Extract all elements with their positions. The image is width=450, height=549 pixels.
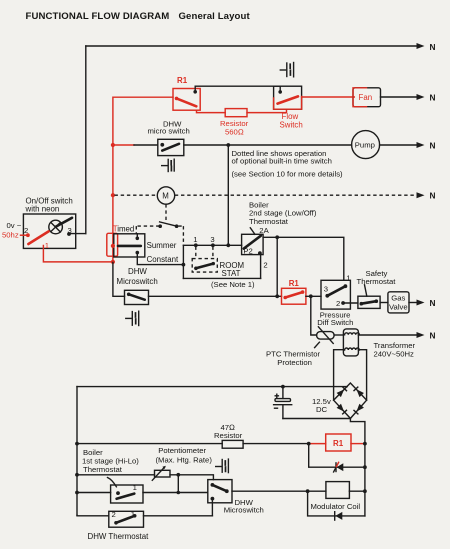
svg-text:50hz: 50hz: [2, 231, 19, 240]
wire: 50hz red tick to terminal 2: [21, 234, 27, 236]
pressure diff switch box: [321, 280, 350, 309]
wire: dashed timer contact to heating line: [178, 226, 183, 244]
thermostat boiler 1st stage box: [111, 485, 143, 503]
svg-text:DHW Thermostat: DHW Thermostat: [88, 532, 150, 541]
svg-text:DHW: DHW: [128, 267, 147, 276]
wire: microswitch lower contact to DHW thermostat line: [211, 499, 213, 516]
svg-text:N: N: [430, 92, 436, 102]
svg-text:P2: P2: [243, 247, 252, 256]
microswitch DHW (fan circuit): [158, 139, 184, 155]
wire: junction drop to boiler 1st stage line: [177, 475, 179, 493]
diode D1 (across R1 coil): [337, 463, 344, 471]
wire: resistor to R1 coil: [243, 443, 309, 445]
svg-text:2: 2: [112, 510, 116, 519]
wire: red live riser: [113, 97, 173, 262]
blade of Summer/Constant selector: [118, 245, 141, 248]
svg-text:R1: R1: [333, 439, 344, 448]
node: rail junction R1 coil: [363, 442, 367, 446]
svg-text:Thermostat: Thermostat: [83, 465, 123, 474]
wire: rail to potentiometer: [77, 474, 155, 476]
svg-text:Summer: Summer: [147, 241, 177, 250]
wire: branch to protection diode: [309, 444, 365, 468]
bridge rectifier BR1: [334, 383, 367, 418]
suppressor capacitor to earth (below DHW micro switch): [162, 159, 175, 171]
wire: live drop to DHW microswitch: [113, 263, 125, 297]
wire: dashed from motor to timer contact: [165, 204, 167, 222]
svg-text:Switch: Switch: [280, 121, 303, 130]
thermostat P2 box: [242, 234, 264, 254]
svg-text:R1: R1: [177, 76, 188, 85]
wire: vertical from On/Off switch terminal 3 up to top N line: [85, 46, 87, 234]
node: terminal 2 of On/Off switch: [26, 233, 30, 237]
wire: red link into R1 coil: [309, 443, 326, 445]
wire: heating feed line to P2: [183, 244, 241, 246]
svg-text:1: 1: [133, 483, 137, 492]
node: terminal 2 of pressure diff switch: [341, 301, 345, 305]
modulator coil L1: [326, 482, 350, 499]
resistor 47 ohm: [222, 440, 243, 448]
switch S1 On/Off box: [23, 214, 75, 248]
room stat box (dashed): [192, 259, 217, 273]
node: junction to protection diode: [307, 442, 311, 446]
svg-text:1: 1: [193, 235, 197, 244]
blade of P2 thermostat: [244, 236, 261, 249]
wire: flyback branch: [308, 491, 365, 516]
leader line from 1st stage label: [108, 478, 117, 487]
wire: red drop from terminal 1: [43, 246, 113, 262]
blade (black) of On/Off switch: [56, 218, 72, 227]
timer contact: [158, 224, 162, 228]
wire: 47 ohm resistor line: [77, 443, 222, 445]
wire: DHW microswitch to R1 contact: [149, 295, 282, 297]
microswitch DHW (modulator circuit): [208, 480, 232, 503]
suppressor capacitor to earth (potentiometer): [216, 459, 229, 473]
wire: Summer contact stem to box top: [136, 234, 138, 239]
blade (red) of On/Off switch: [28, 231, 48, 244]
svg-text:Modulator Coil: Modulator Coil: [311, 502, 361, 511]
diode upper-left: [337, 389, 345, 397]
svg-text:(see Section 10 for more detai: (see Section 10 for more details): [232, 169, 344, 178]
wire: PTC thermistor to transformer: [334, 334, 343, 336]
wire: Flow Switch to Fan (red): [302, 96, 355, 98]
svg-text:Microswitch: Microswitch: [117, 277, 158, 286]
svg-text:2: 2: [336, 299, 340, 308]
node: junction to transformer primary feed: [309, 294, 313, 298]
svg-text:Microswitch: Microswitch: [224, 506, 264, 515]
svg-text:Resistor: Resistor: [214, 431, 243, 440]
node: rail junction modulator: [363, 489, 367, 493]
svg-text:1: 1: [45, 241, 49, 250]
node: junction to R1 coil circuit riser: [275, 235, 279, 239]
svg-text:with neon: with neon: [25, 205, 60, 214]
potentiometer RV1: [155, 470, 171, 477]
wire: Fan to N: [381, 96, 418, 98]
suppressor capacitor to earth (top): [280, 63, 293, 77]
wire: 1st stage thermostat to DHW microswitch: [143, 492, 208, 494]
svg-text:Timed: Timed: [113, 225, 135, 234]
svg-text:240V~50Hz: 240V~50Hz: [374, 349, 415, 358]
wire: feed down to PTC thermistor: [311, 296, 317, 335]
svg-text:micro switch: micro switch: [148, 127, 190, 136]
svg-text:N: N: [430, 42, 436, 52]
svg-text:Diff Switch: Diff Switch: [317, 318, 353, 327]
smoothing capacitor C1: [282, 387, 284, 399]
wire: Constant contact stem down and to heating enclosure: [137, 253, 183, 265]
node: rail junction potentiometer line: [75, 473, 79, 477]
arrow to N (pump): [417, 142, 425, 148]
node: room stat terminal 3: [211, 243, 215, 247]
wire: left DC rail: [76, 387, 78, 516]
arrow to N (dashed line): [417, 192, 425, 198]
PTC thermistor: [317, 332, 335, 340]
transformer T1: [343, 329, 358, 356]
wire: enclosure bottom edge: [183, 277, 260, 279]
node: P2 terminal 2: [258, 251, 262, 255]
svg-text:Protection: Protection: [277, 358, 312, 367]
svg-text:DC: DC: [316, 405, 328, 414]
diode upper-right: [356, 389, 364, 397]
motor M of time switch: [157, 187, 174, 204]
node: rail junction diode: [363, 465, 367, 469]
node: terminal 3 of On/Off switch: [67, 232, 71, 236]
svg-text:M: M: [162, 191, 169, 200]
suppressor capacitor to earth (below DHW microswitch): [126, 311, 139, 325]
gas valve: [388, 292, 409, 313]
svg-text:Thermostat: Thermostat: [249, 217, 289, 226]
wire: potentiometer output: [170, 475, 213, 480]
wire: pump to N: [380, 144, 418, 146]
wire: red bypass lower path from R1: [197, 110, 226, 112]
node: rail junction boiler 1st stage: [75, 491, 79, 495]
wire: terminal 2 to safety thermostat: [343, 302, 358, 304]
svg-text:Pump: Pump: [355, 141, 375, 150]
wire: R1 contact to pressure diff switch: [306, 295, 321, 297]
wire: enclosure right edge up to P2 terminal 2: [260, 253, 262, 278]
wire: secondary left lead to bridge: [334, 350, 344, 401]
wire: dashed optional time switch line to N: [115, 194, 418, 196]
wire: modulator coil to right rail: [349, 490, 365, 492]
arrow to N (gas valve): [417, 300, 425, 306]
wire: safety thermostat to gas valve: [380, 302, 388, 304]
svg-text:N: N: [430, 298, 436, 308]
node: junction pot to first stage line: [176, 473, 180, 477]
svg-text:560Ω: 560Ω: [225, 128, 244, 137]
wire: DHW thermostat to microswitch lower contact: [144, 515, 213, 517]
blade of pressure diff switch: [325, 294, 329, 298]
leader line from PTC label: [315, 342, 320, 347]
wire: DHW micro switch to pump line: [184, 144, 352, 146]
svg-text:Potentiometer: Potentiometer: [158, 446, 206, 455]
wire: top N line: [86, 45, 418, 47]
svg-text:2: 2: [24, 226, 28, 235]
svg-text:(See Note 1): (See Note 1): [211, 280, 255, 289]
node: junction at vertical feed: [226, 143, 230, 147]
wire: resistor to Flow Switch bottom: [247, 110, 287, 113]
wire: capacitor negative to bridge DC-: [283, 418, 351, 420]
node: junction smoothing capacitor: [281, 385, 285, 389]
wire: live junction to DHW micro switch (red start): [111, 143, 115, 147]
microswitch DHW (heating circuit): [125, 290, 149, 304]
node: Summer contact: [136, 237, 140, 241]
svg-text:Valve: Valve: [389, 302, 408, 311]
fan FAN1: [353, 88, 381, 107]
neon lamp of On/Off switch: [49, 220, 63, 234]
arrow to N (top line): [417, 43, 425, 49]
wire: riser down to R1 contact line: [276, 237, 278, 296]
wire: secondary right lead to bridge: [358, 350, 366, 401]
resistor 560 ohm: [225, 109, 247, 117]
wire: P2 output to pressure diff switch: [263, 237, 344, 280]
flow switch FS1: [274, 86, 302, 109]
svg-text:0v ~: 0v ~: [7, 221, 22, 230]
wire: dashed drops to room stat: [196, 247, 213, 259]
wire: R1 coil to right rail (red): [351, 443, 365, 445]
node: rail junction 47 ohm line: [75, 442, 79, 446]
wire: transformer primary to N: [358, 334, 417, 336]
svg-text:2: 2: [263, 260, 267, 269]
node: junction flyback diode: [306, 489, 310, 493]
node: Constant contact: [136, 251, 140, 255]
wire: DC+ line from bridge to left rail: [77, 386, 347, 388]
node: junction with riser from P2: [275, 294, 279, 298]
node: red junction at dashed time-switch line: [111, 193, 115, 197]
wire: rail bottom to DHW thermostat: [77, 514, 109, 517]
svg-text:N: N: [430, 140, 436, 150]
leader line from safety thermostat label: [365, 285, 367, 296]
wire: gas valve to N: [409, 302, 418, 304]
wire: dashed timer contact to Summer terminal: [136, 226, 159, 234]
wire: microswitch output to modulator coil: [232, 490, 326, 492]
relay coil R1: [326, 434, 351, 451]
leader line from thermostat label: [250, 228, 255, 235]
svg-text:FUNCTIONAL FLOW DIAGRAM: FUNCTIONAL FLOW DIAGRAM: [26, 11, 170, 22]
diode D2 (flyback across modulator coil): [335, 512, 342, 520]
svg-text:of optional built-in time swit: of optional built-in time switch: [232, 157, 332, 166]
switch: Summer/Constant selector box: [114, 234, 145, 257]
node: room stat terminal 1: [194, 243, 198, 247]
safety thermostat: [358, 296, 380, 308]
svg-text:General Layout: General Layout: [179, 11, 251, 22]
node: red junction at live riser: [111, 260, 115, 264]
blade of Flow Switch (red): [278, 96, 299, 103]
arrow to N (transformer): [417, 332, 425, 338]
wire: vertical from DHW micro line to heating line: [227, 145, 229, 245]
blade of room stat: [194, 267, 198, 271]
svg-text:3: 3: [324, 285, 328, 294]
svg-text:N: N: [430, 330, 436, 340]
svg-text:Constant: Constant: [147, 255, 179, 264]
svg-text:STAT: STAT: [222, 269, 241, 278]
node: junction of vertical feed: [226, 243, 230, 247]
blade of R1 contact: [177, 98, 197, 106]
svg-text:R1: R1: [289, 279, 300, 288]
wire: bridge DC- to right rail: [350, 418, 365, 516]
wire: enclosure left edge: [182, 245, 184, 278]
node: Flow Switch top contact: [278, 90, 282, 94]
arrow to N (fan): [417, 94, 425, 100]
wire: R1 top contact loop to Flow Switch top contact: [195, 86, 280, 92]
diode lower-left: [337, 404, 345, 412]
wire: terminal 3 to riser: [69, 233, 86, 235]
selector link Timed (red box): [107, 233, 118, 256]
svg-text:N: N: [430, 191, 436, 201]
svg-text:PTC Thermistor: PTC Thermistor: [266, 349, 321, 358]
node: R1 common (red): [175, 97, 179, 101]
node: R1 top contact: [193, 90, 197, 94]
pump P1: [352, 131, 380, 159]
svg-text:Fan: Fan: [359, 93, 373, 102]
svg-text:Thermostat: Thermostat: [357, 277, 397, 286]
node: junction of constant wire on enclosure left edge: [182, 263, 186, 267]
node: red feed into selector: [111, 244, 115, 248]
svg-text:3: 3: [210, 235, 214, 244]
diode lower-right: [356, 404, 364, 412]
wire: rail to boiler 1st stage thermostat: [77, 492, 111, 494]
node: junction with pot drop: [177, 491, 181, 495]
svg-text:(Max. Htg. Rate): (Max. Htg. Rate): [156, 456, 213, 465]
thermostat DHW box: [109, 511, 144, 527]
